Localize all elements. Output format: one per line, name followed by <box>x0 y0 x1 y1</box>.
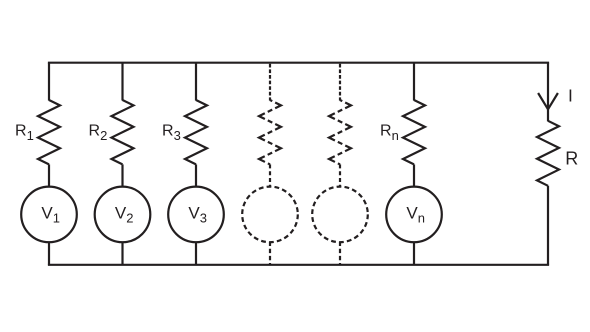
svg-text:Vn: Vn <box>406 204 425 226</box>
wire: branch 6 bottom vertical from source to bottom bus <box>413 242 415 265</box>
wire: branch 2 top vertical from top bus to resistor <box>121 63 123 101</box>
wire: branch 4 bottom vertical from source to bottom bus <box>269 242 271 265</box>
resistor R3 <box>185 100 207 164</box>
wire: branch 3 middle vertical from resistor to source <box>195 164 197 187</box>
wire: branch 2 middle vertical from resistor to source <box>121 164 123 187</box>
wire: branch 2 bottom vertical from source to bottom bus <box>121 242 123 265</box>
resistor Rn <box>403 100 425 164</box>
voltage source Vn (circle) <box>386 187 442 243</box>
voltage source (dashed continuation branch 1) (circle) <box>242 187 298 243</box>
wire: branch 5 bottom vertical from source to bottom bus <box>339 242 341 265</box>
voltage source V2 (circle) <box>95 187 151 243</box>
wire: bottom bus return from V1 branch to load branch <box>48 264 549 266</box>
svg-text:R3: R3 <box>162 122 181 143</box>
svg-text:V3: V3 <box>188 204 207 226</box>
svg-text:R2: R2 <box>89 122 108 143</box>
svg-text:V2: V2 <box>115 204 134 226</box>
wire: branch 6 middle vertical from resistor to source <box>413 164 415 187</box>
resistor R (load) <box>537 121 559 186</box>
wire: branch 4 top vertical from top bus to resistor <box>269 64 271 101</box>
wire: branch 1 middle vertical from resistor to source <box>48 164 50 187</box>
svg-text:I: I <box>568 85 573 105</box>
wire: top bus from node A (branch V1/R1) to load branch <box>48 62 549 64</box>
wire: branch 5 top vertical from top bus to resistor <box>339 64 341 101</box>
wire: branch 1 top vertical from top bus to resistor <box>48 63 50 101</box>
svg-text:Rn: Rn <box>380 122 399 143</box>
svg-text:R: R <box>565 149 578 169</box>
resistor (dashed continuation branch 1) <box>259 100 281 164</box>
wire: branch 6 top vertical from top bus to resistor <box>413 63 415 101</box>
wire: branch 1 bottom vertical from source to bottom bus <box>48 242 50 265</box>
resistor R1 <box>38 100 60 164</box>
wire: branch 3 bottom vertical from source to bottom bus <box>195 242 197 265</box>
voltage source V1 (circle) <box>21 187 77 243</box>
current arrow I (arrowhead on load branch wire) <box>538 93 558 109</box>
voltage source (dashed continuation branch 2) (circle) <box>312 187 368 243</box>
svg-text:V1: V1 <box>41 204 60 226</box>
wire: load branch vertical from resistor R to bottom bus <box>547 186 549 265</box>
voltage source V3 (circle) <box>168 187 224 243</box>
wire: branch 5 middle vertical from resistor to source <box>339 164 341 187</box>
wire: branch 4 middle vertical from resistor to source <box>269 164 271 187</box>
wire: load branch vertical from top bus to resistor R <box>547 63 549 122</box>
resistor (dashed continuation branch 2) <box>329 100 351 164</box>
wire: branch 3 top vertical from top bus to resistor <box>195 63 197 101</box>
svg-text:R1: R1 <box>15 122 34 143</box>
resistor R2 <box>112 100 134 164</box>
